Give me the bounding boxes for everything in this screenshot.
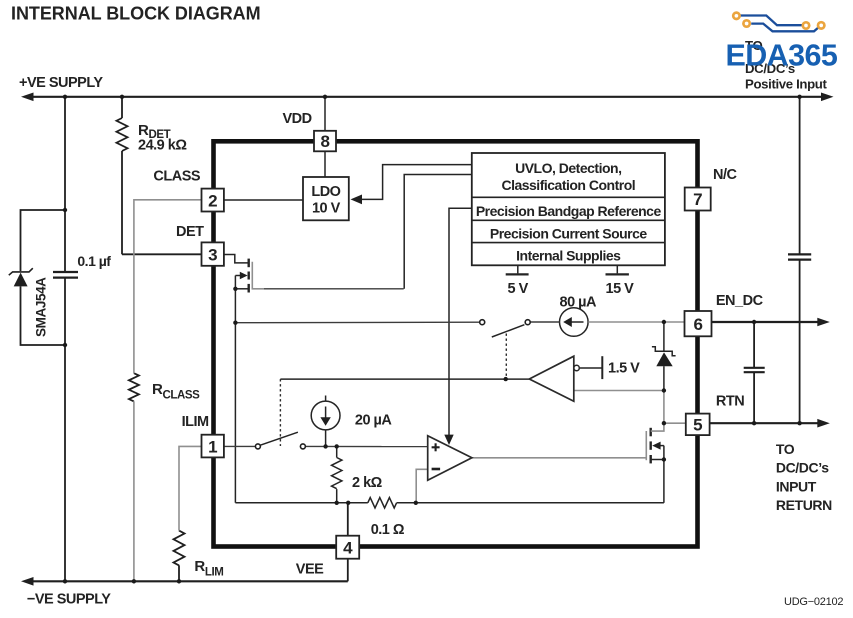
svg-text:EDA365: EDA365 bbox=[726, 38, 838, 72]
svg-text:4: 4 bbox=[343, 538, 353, 557]
svg-text:VEE: VEE bbox=[296, 562, 324, 578]
svg-text:6: 6 bbox=[693, 315, 702, 334]
svg-text:Classification Control: Classification Control bbox=[501, 177, 635, 193]
svg-text:CLASS: CLASS bbox=[153, 169, 200, 185]
svg-text:+VE SUPPLY: +VE SUPPLY bbox=[19, 75, 103, 91]
svg-text:0.1 Ω: 0.1 Ω bbox=[371, 522, 405, 538]
svg-text:Precision Bandgap Reference: Precision Bandgap Reference bbox=[476, 203, 662, 219]
svg-text:0.1 µf: 0.1 µf bbox=[77, 253, 111, 269]
svg-text:24.9 kΩ: 24.9 kΩ bbox=[138, 138, 187, 154]
svg-text:5: 5 bbox=[693, 416, 702, 435]
svg-text:LDO: LDO bbox=[311, 184, 340, 200]
svg-text:15 V: 15 V bbox=[606, 281, 635, 297]
svg-text:Precision Current Source: Precision Current Source bbox=[490, 225, 648, 241]
svg-text:UDG−02102: UDG−02102 bbox=[784, 596, 843, 608]
svg-text:2: 2 bbox=[208, 191, 217, 210]
svg-text:80 µA: 80 µA bbox=[560, 295, 598, 311]
svg-text:ILIM: ILIM bbox=[182, 414, 209, 430]
svg-text:7: 7 bbox=[693, 190, 702, 209]
svg-text:1.5 V: 1.5 V bbox=[608, 360, 640, 376]
svg-text:8: 8 bbox=[320, 132, 329, 151]
svg-text:INPUT: INPUT bbox=[776, 478, 817, 494]
svg-text:EN_DC: EN_DC bbox=[716, 293, 764, 309]
svg-text:SMAJ54A: SMAJ54A bbox=[34, 277, 49, 337]
svg-text:N/C: N/C bbox=[713, 167, 738, 183]
svg-text:3: 3 bbox=[208, 245, 217, 264]
svg-text:2 kΩ: 2 kΩ bbox=[352, 475, 383, 491]
svg-text:INTERNAL BLOCK DIAGRAM: INTERNAL BLOCK DIAGRAM bbox=[11, 3, 261, 23]
svg-text:RTN: RTN bbox=[716, 394, 744, 410]
svg-text:10 V: 10 V bbox=[312, 201, 341, 217]
svg-text:Internal Supplies: Internal Supplies bbox=[516, 248, 621, 264]
svg-text:1: 1 bbox=[208, 437, 217, 456]
svg-text:RETURN: RETURN bbox=[776, 497, 832, 513]
svg-text:UVLO, Detection,: UVLO, Detection, bbox=[515, 160, 621, 176]
svg-text:Positive Input: Positive Input bbox=[745, 76, 828, 91]
svg-text:−VE SUPPLY: −VE SUPPLY bbox=[27, 591, 111, 607]
svg-text:TO: TO bbox=[776, 441, 795, 457]
svg-text:DET: DET bbox=[176, 224, 204, 240]
svg-text:20 µA: 20 µA bbox=[355, 412, 393, 428]
svg-text:DC/DC’s: DC/DC’s bbox=[776, 460, 829, 476]
svg-text:5 V: 5 V bbox=[508, 281, 529, 297]
svg-text:VDD: VDD bbox=[283, 111, 312, 127]
